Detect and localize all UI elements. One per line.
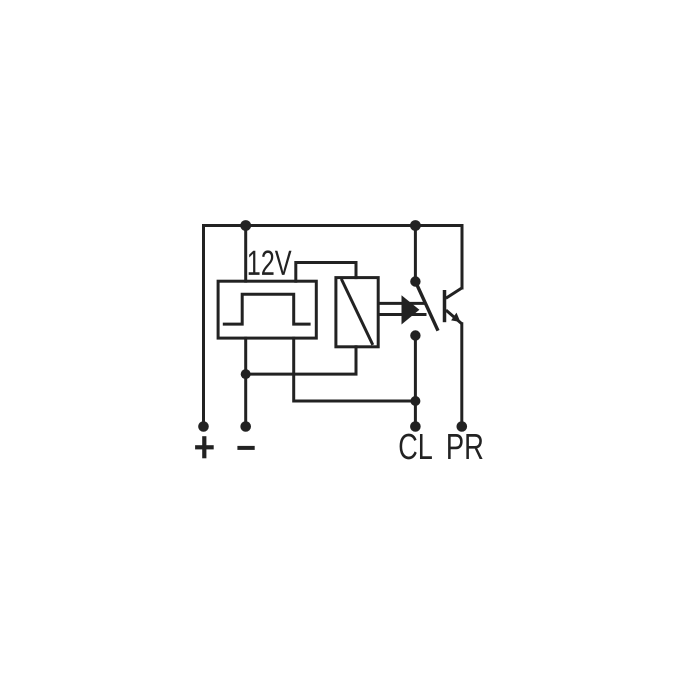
junction dot CL rail / pulse return xyxy=(410,396,420,406)
label 12V xyxy=(249,250,292,275)
phototransistor emitter xyxy=(446,310,462,324)
terminal dot minus xyxy=(240,421,251,432)
wire pulse box top-right to opto box top xyxy=(296,263,356,282)
switch contact dot top xyxy=(410,276,420,286)
switch contact dot bottom xyxy=(410,330,420,340)
emitter arrowhead xyxy=(451,313,460,322)
light arrow head xyxy=(402,295,420,324)
light arrow shaft xyxy=(378,303,426,314)
junction dot top rail / minus xyxy=(240,220,251,231)
wire CL rail upper segment xyxy=(414,226,417,282)
phototransistor collector xyxy=(446,288,462,298)
wire pulse box bottom-right to CL junction xyxy=(294,338,416,401)
label PR xyxy=(448,434,483,459)
wire opto box bottom to minus junction xyxy=(246,347,356,374)
terminal dot plus xyxy=(198,421,209,432)
phototransistor Q1 base bar xyxy=(443,290,447,322)
wire PR rail lower segment xyxy=(460,324,463,427)
label minus xyxy=(237,446,254,450)
opto switch lever xyxy=(415,282,438,331)
terminal dot CL xyxy=(410,421,421,432)
label plus xyxy=(195,436,214,458)
label CL xyxy=(400,434,432,460)
junction dot top rail / CL xyxy=(410,220,421,231)
pulse generator 12V box xyxy=(218,281,316,338)
wire minus rail upper segment xyxy=(244,226,247,282)
terminal dot PR xyxy=(457,421,468,432)
wire CL rail lower segment xyxy=(414,336,417,427)
pulse waveform symbol xyxy=(224,294,309,324)
wire minus rail lower segment xyxy=(244,338,247,426)
wire top supply rail xyxy=(204,226,463,428)
junction dot minus rail / opto return xyxy=(241,369,251,379)
optocoupler box diagonal xyxy=(341,279,373,345)
optocoupler LED box U1 xyxy=(336,278,378,347)
